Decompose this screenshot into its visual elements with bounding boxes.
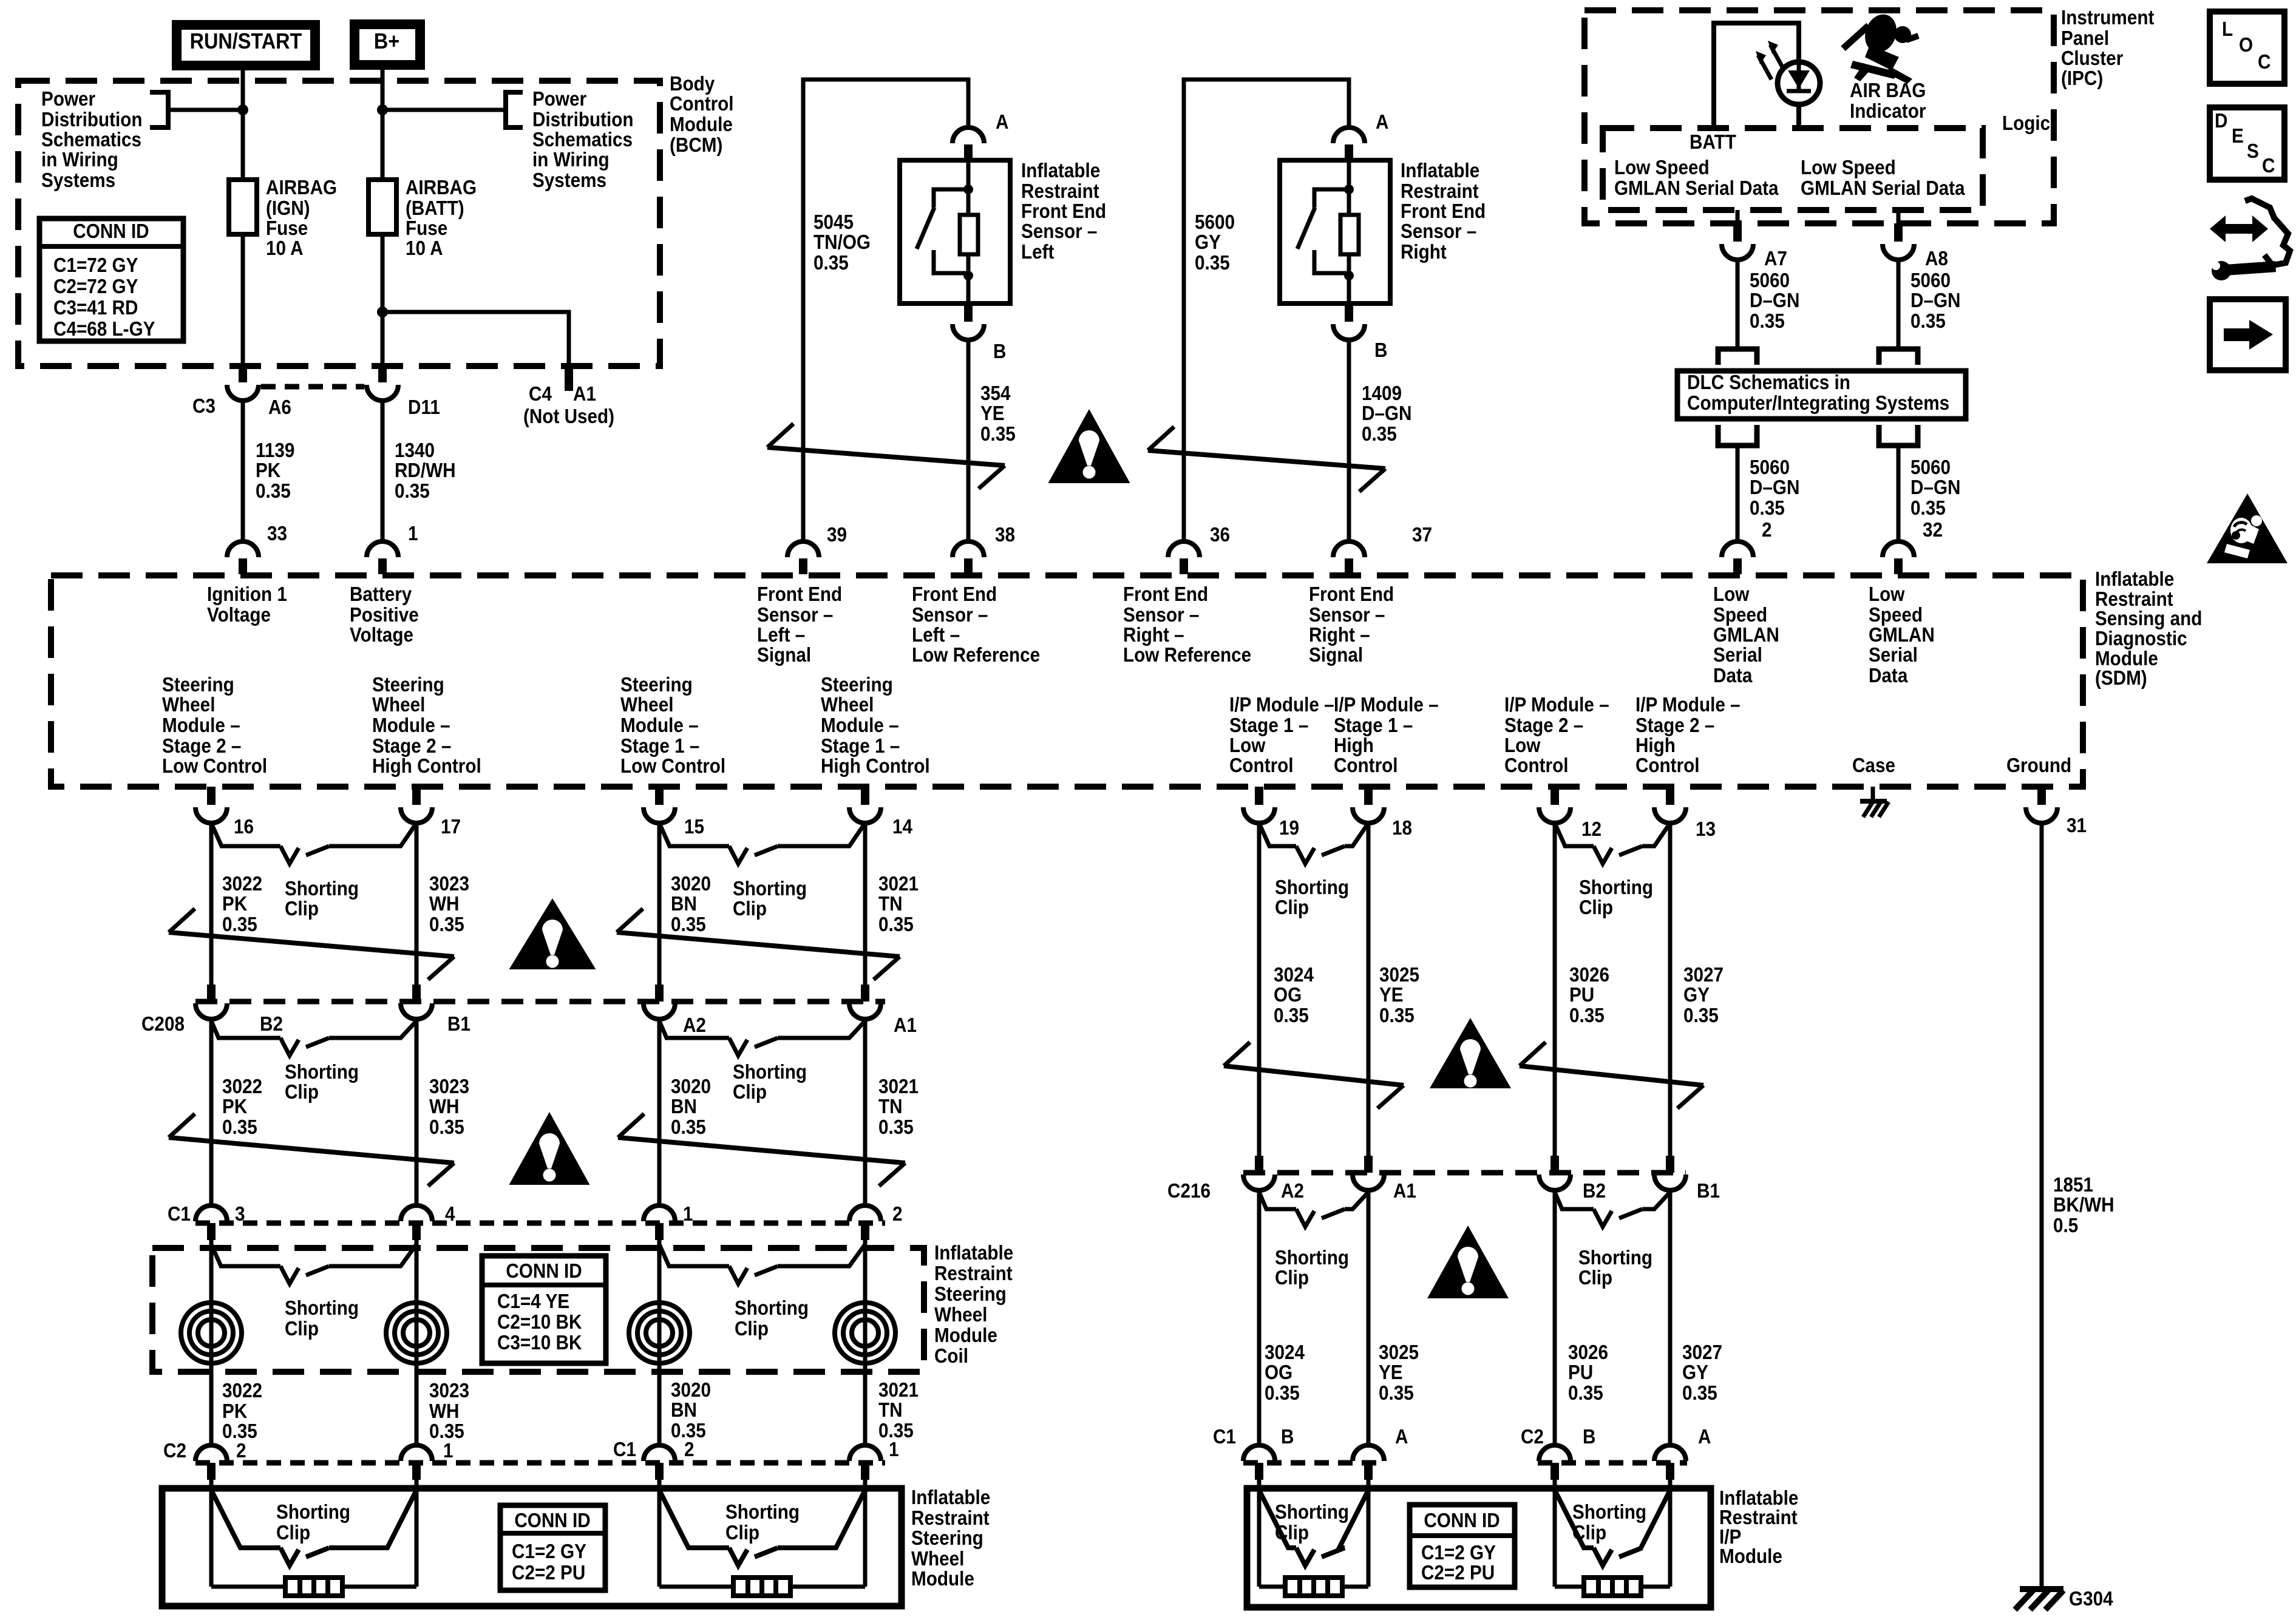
svg-text:YE: YE bbox=[1379, 984, 1404, 1006]
svg-text:Diagnostic: Diagnostic bbox=[2095, 628, 2187, 650]
shorting clip B2-B1 bbox=[211, 1021, 280, 1038]
off-page bracket A8 top bbox=[1879, 349, 1918, 365]
svg-text:OG: OG bbox=[1274, 984, 1302, 1006]
svg-text:Clip: Clip bbox=[1578, 1267, 1612, 1289]
wire 3023 WH segment2 bbox=[415, 1019, 419, 1205]
svg-text:0.5: 0.5 bbox=[2053, 1215, 2078, 1237]
svg-text:Panel: Panel bbox=[2061, 27, 2109, 50]
svg-text:(BCM): (BCM) bbox=[670, 134, 722, 157]
svg-text:B1: B1 bbox=[447, 1013, 470, 1036]
connector C1-A at IP module bbox=[1364, 1463, 1373, 1480]
shorting clip B2-B1 right bbox=[1555, 1192, 1594, 1209]
svg-text:Clip: Clip bbox=[1275, 1522, 1309, 1544]
IP internal bus wire right bbox=[1555, 1585, 1670, 1589]
wire logic to IPC edge A8 bbox=[1897, 210, 1901, 223]
IP internal bus wire left bbox=[1259, 1585, 1368, 1589]
svg-text:Front End: Front End bbox=[1021, 200, 1106, 223]
svg-text:A8: A8 bbox=[1925, 248, 1948, 270]
svg-text:13: 13 bbox=[1696, 818, 1716, 841]
svg-text:YE: YE bbox=[1379, 1361, 1403, 1384]
svg-text:Clip: Clip bbox=[1275, 897, 1309, 919]
shorting bar IP right bbox=[1584, 1578, 1641, 1596]
icon box DESC bbox=[2210, 107, 2284, 180]
svg-text:3024: 3024 bbox=[1274, 964, 1314, 986]
wire 3027 GY segment1 bbox=[1668, 823, 1673, 1156]
sensor-left internal wire bbox=[966, 160, 971, 303]
connector pin 32 at SDM bbox=[1894, 558, 1903, 574]
svg-text:0.35: 0.35 bbox=[1265, 1382, 1300, 1405]
svg-text:0.35: 0.35 bbox=[256, 480, 291, 503]
svg-text:0.35: 0.35 bbox=[1750, 310, 1785, 333]
svg-text:PK: PK bbox=[256, 459, 281, 482]
svg-text:Distribution: Distribution bbox=[41, 109, 143, 131]
connector pin 38 at SDM bbox=[964, 558, 973, 574]
svg-text:C2: C2 bbox=[163, 1440, 186, 1462]
sensor-left switch bbox=[934, 189, 968, 208]
svg-text:Module: Module bbox=[1719, 1545, 1782, 1568]
warning triangle right upper bbox=[1430, 1018, 1511, 1088]
IP internal wire x2561 bbox=[1553, 1480, 1557, 1587]
svg-text:Front End: Front End bbox=[1401, 200, 1486, 223]
svg-text:Steering: Steering bbox=[821, 674, 893, 696]
svg-text:5060: 5060 bbox=[1750, 456, 1790, 479]
svg-text:Steering: Steering bbox=[911, 1527, 983, 1550]
svg-text:A: A bbox=[1395, 1426, 1408, 1448]
svg-text:CONN ID: CONN ID bbox=[506, 1260, 582, 1283]
svg-text:17: 17 bbox=[441, 816, 461, 838]
sensor-right nodes bbox=[1344, 185, 1354, 194]
shorting bar IP left bbox=[1285, 1578, 1342, 1596]
off-page bracket left bbox=[150, 92, 168, 127]
svg-text:B+: B+ bbox=[374, 29, 399, 53]
CONN ID table IP bbox=[1410, 1505, 1515, 1587]
svg-text:Shorting: Shorting bbox=[1275, 1247, 1349, 1269]
connector A2 at C208 bbox=[655, 985, 664, 1002]
svg-text:2: 2 bbox=[236, 1440, 246, 1462]
clockspring coil 1 bbox=[181, 1303, 242, 1363]
shorting clip A2-A1 right bbox=[1259, 1192, 1296, 1209]
sensor-right resistor bbox=[1340, 215, 1359, 254]
svg-text:Instrument: Instrument bbox=[2061, 7, 2155, 29]
case ground symbol bbox=[1871, 787, 1875, 801]
svg-text:3023: 3023 bbox=[429, 1380, 469, 1402]
svg-text:in Wiring: in Wiring bbox=[532, 149, 610, 171]
shorting clip pins 19-18 bbox=[1259, 823, 1296, 846]
svg-text:Speed: Speed bbox=[1713, 604, 1767, 626]
svg-text:15: 15 bbox=[684, 816, 704, 838]
svg-text:B: B bbox=[1281, 1426, 1294, 1448]
power feed box B+ bbox=[355, 24, 420, 65]
svg-text:Right –: Right – bbox=[1309, 624, 1370, 646]
svg-text:C2=10 BK: C2=10 BK bbox=[497, 1311, 582, 1334]
svg-text:0.35: 0.35 bbox=[878, 1116, 914, 1139]
svg-text:0.35: 0.35 bbox=[1683, 1005, 1719, 1027]
svg-text:Module –: Module – bbox=[372, 714, 450, 737]
svg-text:Shorting: Shorting bbox=[1275, 1501, 1349, 1524]
svg-text:High Control: High Control bbox=[372, 755, 481, 778]
svg-text:BN: BN bbox=[671, 1399, 697, 1422]
wire LED to logic bbox=[1796, 104, 1801, 128]
svg-text:0.35: 0.35 bbox=[671, 914, 706, 936]
svg-text:Left –: Left – bbox=[912, 624, 960, 646]
connector pin 1 at SDM bbox=[378, 558, 387, 574]
svg-text:D–GN: D–GN bbox=[1911, 290, 1960, 312]
svg-text:Ground: Ground bbox=[2006, 754, 2071, 777]
svg-text:C4=68 L-GY: C4=68 L-GY bbox=[53, 318, 155, 341]
svg-text:BK/WH: BK/WH bbox=[2053, 1194, 2114, 1216]
connector link dashes C3-D11 bbox=[261, 384, 364, 390]
wire 3022 PK segment1 bbox=[209, 823, 214, 986]
svg-text:Data: Data bbox=[1713, 665, 1753, 687]
wire 3024 OG segment2 bbox=[1257, 1190, 1262, 1445]
svg-text:Clip: Clip bbox=[285, 1318, 319, 1340]
fuse AIRBAG (BATT) 10A bbox=[369, 180, 396, 234]
svg-text:0.35: 0.35 bbox=[222, 1116, 257, 1139]
svg-text:C1: C1 bbox=[168, 1203, 191, 1225]
svg-text:Stage 1 –: Stage 1 – bbox=[821, 735, 900, 758]
svg-text:D–GN: D–GN bbox=[1750, 290, 1799, 312]
svg-text:Data: Data bbox=[1869, 665, 1908, 687]
svg-text:1: 1 bbox=[443, 1440, 453, 1462]
svg-text:D–GN: D–GN bbox=[1362, 402, 1411, 425]
svg-text:B2: B2 bbox=[1583, 1180, 1606, 1202]
svg-text:36: 36 bbox=[1210, 524, 1230, 546]
SWM internal bus wire right bbox=[659, 1585, 865, 1589]
power feed box RUN/START bbox=[177, 25, 315, 66]
coil wire x348 bbox=[209, 1240, 214, 1445]
wire RUN/START down bbox=[241, 62, 245, 181]
svg-text:Low Reference: Low Reference bbox=[912, 644, 1040, 666]
wire 1139 PK bbox=[241, 401, 245, 541]
svg-text:S: S bbox=[2247, 140, 2259, 163]
svg-text:B: B bbox=[1583, 1426, 1595, 1448]
svg-text:Fuse: Fuse bbox=[266, 217, 308, 240]
ground G304 symbol bbox=[2020, 1586, 2063, 1592]
connector A sensor-left bbox=[964, 144, 973, 160]
svg-text:Inflatable: Inflatable bbox=[2095, 568, 2174, 591]
twisted pair marker right-A bbox=[1224, 1066, 1404, 1085]
svg-text:Low: Low bbox=[1869, 583, 1905, 606]
twisted pair marker left-A bbox=[169, 932, 454, 957]
LED light arrows bbox=[1770, 45, 1784, 69]
svg-text:Stage 2 –: Stage 2 – bbox=[1504, 714, 1583, 737]
warning triangle margin bbox=[2207, 493, 2288, 563]
svg-text:1409: 1409 bbox=[1362, 382, 1402, 405]
CONN ID table coil bbox=[482, 1256, 606, 1363]
IP internal wire x2254 bbox=[1367, 1480, 1371, 1587]
connector pin 33 at SDM bbox=[239, 558, 247, 574]
svg-text:RD/WH: RD/WH bbox=[395, 459, 456, 482]
svg-text:Steering: Steering bbox=[372, 674, 444, 696]
svg-text:Low Control: Low Control bbox=[162, 755, 267, 778]
svg-text:Low: Low bbox=[1504, 734, 1541, 757]
clockspring coil 4 bbox=[835, 1303, 895, 1363]
sensor-left resistor bbox=[960, 215, 978, 254]
svg-text:3020: 3020 bbox=[671, 1379, 711, 1402]
svg-text:Module: Module bbox=[934, 1324, 997, 1347]
svg-text:PU: PU bbox=[1569, 984, 1594, 1006]
svg-text:Shorting: Shorting bbox=[1578, 1247, 1652, 1269]
wire 3021 TN segment1 bbox=[863, 823, 868, 986]
svg-text:3025: 3025 bbox=[1379, 1341, 1419, 1364]
svg-text:Module: Module bbox=[670, 114, 733, 136]
svg-text:I/P Module –: I/P Module – bbox=[1229, 694, 1334, 716]
airbag indicator icon bbox=[1843, 25, 1869, 49]
svg-text:3021: 3021 bbox=[878, 873, 919, 895]
twisted pair marker right-B bbox=[1520, 1066, 1703, 1085]
svg-text:Steering: Steering bbox=[620, 674, 693, 696]
svg-text:WH: WH bbox=[429, 1096, 459, 1118]
SWM internal bus wire left bbox=[211, 1585, 416, 1589]
connector A2 at C216 bbox=[1255, 1156, 1263, 1173]
wire B+ down bbox=[381, 62, 385, 181]
coil wire x1425 bbox=[863, 1240, 868, 1445]
wire 3026 PU segment1 bbox=[1553, 823, 1557, 1156]
svg-text:Shorting: Shorting bbox=[733, 1061, 807, 1083]
shorting clip coil-left bbox=[211, 1244, 280, 1266]
svg-text:PK: PK bbox=[222, 1096, 248, 1118]
svg-text:Inflatable: Inflatable bbox=[1021, 160, 1100, 182]
svg-text:Systems: Systems bbox=[532, 169, 606, 192]
svg-text:5060: 5060 bbox=[1911, 456, 1951, 479]
svg-text:5045: 5045 bbox=[813, 211, 854, 234]
svg-text:AIRBAG: AIRBAG bbox=[266, 177, 337, 199]
connector pin 39 at SDM bbox=[799, 558, 807, 574]
svg-text:Front End: Front End bbox=[1309, 583, 1394, 606]
SWM internal wire x348 bbox=[209, 1480, 214, 1587]
sensor-right internal wire bbox=[1347, 160, 1351, 303]
warning triangle right lower bbox=[1427, 1225, 1509, 1298]
svg-text:5600: 5600 bbox=[1195, 211, 1235, 234]
svg-text:Shorting: Shorting bbox=[285, 1061, 359, 1083]
svg-text:Signal: Signal bbox=[1309, 644, 1363, 666]
svg-text:A: A bbox=[1376, 111, 1388, 134]
svg-text:TN: TN bbox=[878, 1399, 903, 1422]
svg-text:A1: A1 bbox=[573, 383, 596, 405]
svg-text:Right –: Right – bbox=[1123, 624, 1184, 646]
connector pin 17 at SDM bottom bbox=[412, 787, 421, 805]
svg-text:Inflatable: Inflatable bbox=[934, 1242, 1013, 1264]
svg-text:14: 14 bbox=[892, 816, 913, 838]
svg-text:(Not Used): (Not Used) bbox=[523, 405, 614, 428]
svg-text:4: 4 bbox=[445, 1203, 455, 1225]
svg-text:Shorting: Shorting bbox=[285, 878, 359, 900]
svg-text:Control: Control bbox=[1334, 754, 1398, 777]
logic dashed box bbox=[1603, 128, 1983, 210]
connector pin 2 at SDM bbox=[1733, 558, 1742, 574]
connector pin 1 at C1 mid bbox=[655, 1223, 664, 1240]
svg-text:GMLAN Serial Data: GMLAN Serial Data bbox=[1614, 177, 1779, 200]
shorting clip coil-right bbox=[659, 1244, 729, 1266]
svg-text:BN: BN bbox=[671, 1096, 697, 1118]
wire 3020 BN segment2 bbox=[657, 1019, 662, 1205]
svg-text:B: B bbox=[993, 341, 1006, 363]
svg-text:3023: 3023 bbox=[429, 1076, 469, 1098]
svg-text:PK: PK bbox=[222, 893, 248, 915]
svg-text:Control: Control bbox=[1635, 754, 1700, 777]
shorting bar SWM right bbox=[733, 1578, 790, 1596]
svg-text:Low Control: Low Control bbox=[620, 755, 725, 778]
svg-text:Steering: Steering bbox=[162, 674, 234, 696]
svg-text:3025: 3025 bbox=[1379, 964, 1419, 986]
svg-text:Voltage: Voltage bbox=[350, 624, 413, 646]
svg-text:GMLAN: GMLAN bbox=[1713, 624, 1779, 646]
connector pin 18 at SDM bottom bbox=[1364, 787, 1373, 805]
connector line C1 ip bbox=[1243, 1460, 1385, 1466]
svg-text:Logic: Logic bbox=[2002, 112, 2050, 135]
connector line C216 bbox=[1243, 1170, 1686, 1176]
svg-text:Clip: Clip bbox=[276, 1522, 310, 1544]
coil wire x686 bbox=[415, 1240, 419, 1445]
wire 5060 D-GN lower right bbox=[1897, 446, 1901, 541]
svg-text:0.35: 0.35 bbox=[1274, 1005, 1309, 1027]
svg-text:Module –: Module – bbox=[162, 714, 240, 737]
svg-text:Stage 2 –: Stage 2 – bbox=[162, 735, 241, 758]
svg-text:High: High bbox=[1635, 734, 1676, 757]
svg-text:0.35: 0.35 bbox=[222, 914, 257, 936]
svg-text:Clip: Clip bbox=[733, 898, 767, 920]
svg-text:Body: Body bbox=[670, 73, 715, 95]
connector C1-2 at SWM bbox=[655, 1463, 664, 1480]
svg-text:Coil: Coil bbox=[934, 1345, 968, 1368]
svg-text:in Wiring: in Wiring bbox=[41, 149, 118, 171]
svg-text:Right: Right bbox=[1401, 241, 1447, 263]
svg-text:D: D bbox=[2215, 110, 2227, 132]
svg-text:High: High bbox=[1334, 734, 1374, 757]
connector pin 16 at SDM bottom bbox=[207, 787, 216, 805]
icon box LOC bbox=[2210, 12, 2284, 84]
wire bracket-left to node bbox=[168, 108, 243, 112]
svg-text:Schematics: Schematics bbox=[41, 129, 141, 151]
svg-text:Front End: Front End bbox=[912, 583, 997, 606]
connector B sensor-left bbox=[964, 303, 973, 322]
svg-text:3026: 3026 bbox=[1568, 1341, 1608, 1364]
svg-text:D11: D11 bbox=[408, 396, 440, 419]
DLC schematics box bbox=[1677, 371, 1966, 419]
svg-text:Clip: Clip bbox=[1579, 897, 1613, 919]
svg-text:Front End: Front End bbox=[1123, 583, 1208, 606]
svg-text:I/P Module –: I/P Module – bbox=[1334, 694, 1439, 716]
svg-text:Sensor –: Sensor – bbox=[1123, 604, 1199, 626]
svg-text:354: 354 bbox=[980, 382, 1011, 405]
CONN ID table SWM bbox=[500, 1505, 605, 1590]
svg-text:Fuse: Fuse bbox=[406, 217, 447, 240]
svg-text:D–GN: D–GN bbox=[1750, 476, 1799, 499]
svg-text:C3=41 RD: C3=41 RD bbox=[53, 297, 138, 319]
svg-text:Module: Module bbox=[911, 1568, 974, 1590]
connector A8 bbox=[1894, 223, 1903, 242]
off-page bracket A8 bottom bbox=[1879, 425, 1918, 446]
connector B1 at C216 bbox=[1666, 1156, 1674, 1173]
svg-text:Computer/Integrating Systems: Computer/Integrating Systems bbox=[1687, 392, 1949, 415]
connector line C208 bbox=[195, 999, 885, 1005]
svg-text:Clip: Clip bbox=[285, 898, 319, 920]
connector line C2 ip bbox=[1538, 1460, 1687, 1466]
svg-text:Restraint: Restraint bbox=[1401, 180, 1479, 203]
warning triangle left lower bbox=[509, 1112, 590, 1185]
shorting clip SWM left bbox=[211, 1490, 280, 1548]
connector C2-2 at SWM bbox=[207, 1463, 216, 1480]
svg-text:5060: 5060 bbox=[1750, 269, 1790, 292]
svg-text:Sensing and: Sensing and bbox=[2095, 608, 2202, 630]
svg-text:Shorting: Shorting bbox=[733, 878, 807, 900]
svg-text:Schematics: Schematics bbox=[532, 129, 633, 151]
connector C3 at BCM bbox=[239, 364, 247, 382]
svg-text:(SDM): (SDM) bbox=[2095, 667, 2147, 690]
svg-text:TN/OG: TN/OG bbox=[813, 231, 871, 254]
svg-text:Wheel: Wheel bbox=[372, 694, 425, 716]
wire 1409 D-GN bbox=[1347, 340, 1351, 541]
svg-text:Restraint: Restraint bbox=[911, 1507, 990, 1530]
connector A1 at C216 bbox=[1364, 1156, 1373, 1173]
svg-text:18: 18 bbox=[1392, 817, 1412, 839]
node D11 feed bbox=[377, 104, 388, 115]
SWM internal wire x1086 bbox=[657, 1480, 662, 1587]
svg-text:C3: C3 bbox=[192, 395, 216, 418]
wire 3022 PK segment2 bbox=[209, 1019, 214, 1205]
connector pin 19 at SDM bottom bbox=[1255, 787, 1263, 805]
airbag indicator LED circle bbox=[1778, 62, 1820, 104]
connector pin 37 at SDM bbox=[1345, 558, 1353, 574]
node A6 feed bbox=[237, 104, 248, 115]
svg-text:C1=4 YE: C1=4 YE bbox=[497, 1290, 569, 1313]
svg-text:Wheel: Wheel bbox=[821, 694, 874, 716]
svg-text:C2=2 PU: C2=2 PU bbox=[512, 1562, 585, 1584]
svg-text:Control: Control bbox=[1504, 754, 1569, 777]
connector C1-1 at SWM bbox=[861, 1463, 869, 1480]
svg-text:YE: YE bbox=[980, 402, 1005, 425]
LED diode bbox=[1788, 70, 1810, 89]
sensor-left nodes bbox=[963, 185, 973, 194]
svg-text:C208: C208 bbox=[141, 1013, 185, 1036]
svg-text:Stage 2 –: Stage 2 – bbox=[1635, 714, 1714, 737]
svg-text:38: 38 bbox=[995, 524, 1015, 546]
svg-text:3021: 3021 bbox=[878, 1379, 919, 1402]
svg-text:Speed: Speed bbox=[1869, 604, 1923, 626]
shorting bar SWM left bbox=[285, 1578, 342, 1596]
svg-text:(BATT): (BATT) bbox=[406, 197, 464, 220]
svg-text:Low Speed: Low Speed bbox=[1614, 157, 1710, 179]
wire logic to IPC edge A7 bbox=[1736, 210, 1740, 223]
coil wire x1086 bbox=[657, 1240, 662, 1445]
connector pin 15 at SDM bottom bbox=[655, 787, 664, 805]
wire 3020 BN segment1 bbox=[657, 823, 662, 986]
svg-text:Low Speed: Low Speed bbox=[1801, 157, 1896, 179]
svg-text:33: 33 bbox=[267, 523, 287, 545]
svg-text:PU: PU bbox=[1568, 1361, 1593, 1384]
svg-text:C216: C216 bbox=[1167, 1180, 1211, 1202]
svg-text:Case: Case bbox=[1852, 754, 1895, 777]
svg-text:Control: Control bbox=[1229, 754, 1294, 777]
svg-text:GMLAN: GMLAN bbox=[1869, 624, 1935, 646]
svg-text:Left –: Left – bbox=[757, 624, 805, 646]
svg-text:C1=2 GY: C1=2 GY bbox=[1421, 1542, 1496, 1564]
wire 3025 YE segment1 bbox=[1367, 823, 1371, 1156]
twisted pair marker left-B bbox=[617, 932, 900, 957]
coil module dashed box bbox=[152, 1248, 924, 1372]
svg-text:C1=2 GY: C1=2 GY bbox=[512, 1541, 586, 1563]
connector C2-A at IP module bbox=[1666, 1463, 1674, 1480]
svg-text:I/P Module –: I/P Module – bbox=[1504, 694, 1609, 716]
svg-text:1: 1 bbox=[889, 1439, 899, 1461]
shorting clip IP left bbox=[1259, 1490, 1296, 1548]
svg-text:1: 1 bbox=[408, 523, 418, 545]
shorting clip pins 15-14 bbox=[659, 823, 729, 846]
svg-text:A1: A1 bbox=[894, 1014, 917, 1037]
svg-text:WH: WH bbox=[429, 893, 459, 915]
svg-text:Control: Control bbox=[670, 93, 734, 115]
svg-text:Power: Power bbox=[532, 88, 586, 110]
